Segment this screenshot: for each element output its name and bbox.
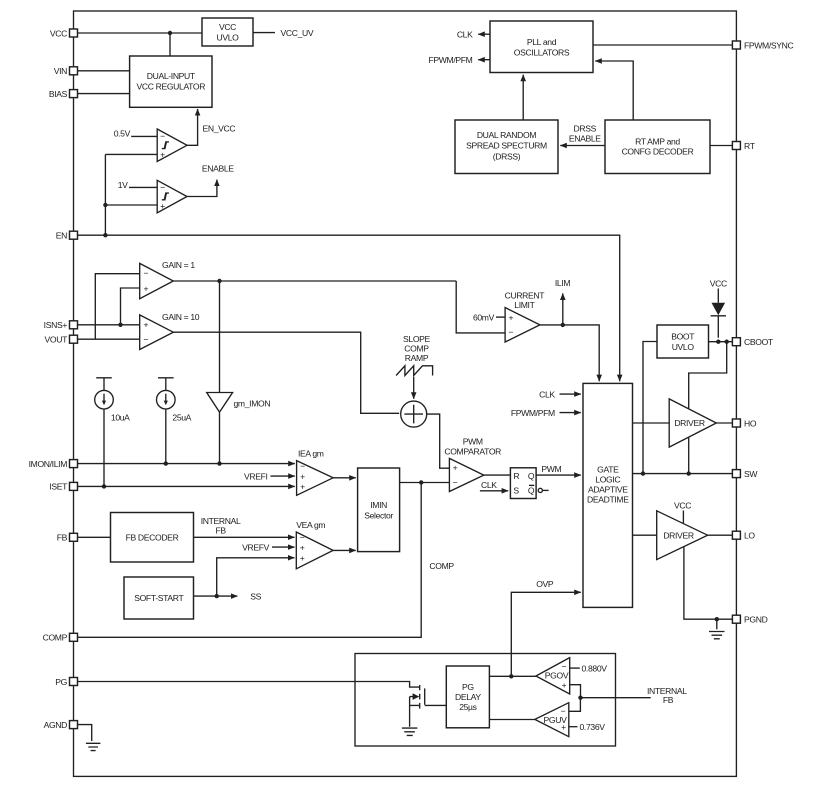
svg-text:DUAL-INPUT: DUAL-INPUT — [147, 71, 196, 81]
node BOOT sense on SW — [641, 471, 645, 475]
svg-text:Q: Q — [528, 486, 535, 496]
wire VREFV to VEA middle input — [272, 546, 295, 548]
svg-text:PWM: PWM — [463, 436, 483, 446]
wire 60mV to current limit plus — [496, 316, 505, 318]
pin EN — [56, 231, 78, 241]
wire 1V to comparator minus — [129, 186, 157, 188]
wire VCC_UV output — [253, 32, 275, 34]
svg-text:PG: PG — [55, 677, 67, 687]
wire IEA output to IMIN selector — [333, 477, 356, 479]
svg-text:RT: RT — [744, 141, 756, 151]
comparator EN_VCC (0.5V) — [157, 129, 187, 162]
svg-text:VCC: VCC — [219, 22, 236, 32]
block IMIN Selector — [358, 468, 400, 552]
svg-text:−: − — [300, 461, 305, 471]
svg-text:0.5V: 0.5V — [114, 129, 131, 139]
wire BOOT UVLO to CBOOT pin — [709, 341, 733, 343]
block PG DELAY 25us — [446, 666, 489, 728]
svg-text:+: + — [300, 482, 305, 492]
node soft-start branch — [215, 594, 219, 598]
svg-text:SS: SS — [250, 591, 261, 601]
pin PGND — [732, 615, 767, 625]
svg-text:LO: LO — [744, 531, 755, 541]
svg-text:+: + — [300, 471, 305, 481]
wire CLK output of PLL — [478, 33, 490, 35]
svg-text:+: + — [453, 463, 458, 473]
wire ISNS+ pin line — [78, 324, 140, 326]
wire HO driver supply from CBOOT — [689, 342, 727, 410]
wire PG DELAY output to FET gate — [425, 704, 447, 706]
ground PGND — [709, 619, 725, 639]
wire VCC into LO driver — [682, 511, 684, 524]
wire ILIM up arrow — [562, 293, 564, 325]
svg-text:S: S — [513, 486, 519, 496]
wire OVP into gate logic — [511, 592, 581, 676]
pin COMP — [43, 633, 78, 643]
wire DRSS ENABLE — [560, 145, 605, 147]
svg-text:AGND: AGND — [44, 720, 68, 730]
svg-text:DEADTIME: DEADTIME — [587, 495, 629, 505]
ground AGND — [86, 743, 101, 750]
wire BIAS pin to regulator — [78, 93, 130, 95]
svg-text:+: + — [508, 312, 513, 322]
node PGND ground tap — [715, 617, 719, 621]
wire ENABLE output with up arrow — [187, 180, 217, 197]
svg-text:−: − — [300, 533, 305, 543]
svg-text:ADAPTIVE: ADAPTIVE — [588, 484, 628, 494]
node ISNS+ branch — [118, 323, 122, 327]
svg-text:DRIVER: DRIVER — [663, 530, 694, 540]
node gm_IMON tap — [217, 279, 221, 283]
svg-text:VCC: VCC — [674, 501, 691, 511]
symbol latch Qbar stub — [538, 488, 548, 492]
latch RS — [510, 468, 536, 499]
wire GAIN=1 signal down to current limit minus — [456, 281, 505, 333]
wire BOOT UVLO left down to SW — [643, 342, 657, 474]
wire GAIN=1 output across to current limit — [173, 280, 456, 282]
node 10uA on ISET line — [102, 484, 106, 488]
wire PGOV threshold — [570, 667, 580, 669]
svg-text:ILIM: ILIM — [555, 278, 571, 288]
wire RT AMP to PLL right input — [595, 61, 633, 120]
svg-text:25µs: 25µs — [459, 702, 476, 712]
wire current limit output — [540, 325, 599, 381]
amplifier VEA gm error amp — [296, 532, 333, 569]
wire EN_VCC comparator output up into regulator — [187, 109, 198, 145]
svg-text:−: − — [160, 131, 165, 141]
current source 10uA — [95, 378, 130, 487]
wire VREFI to IEA middle input — [271, 475, 295, 477]
pin ISET — [49, 482, 77, 492]
svg-text:10uA: 10uA — [111, 413, 130, 423]
pin RT — [732, 141, 755, 151]
svg-text:FB: FB — [663, 695, 674, 705]
block FB DECODER — [111, 513, 194, 563]
wire summing output to PWM comparator plus input — [427, 414, 450, 468]
svg-text:OVP: OVP — [536, 579, 554, 589]
block DUAL-INPUT VCC REGULATOR — [130, 56, 212, 107]
wire COMP net down and to COMP pin — [78, 483, 422, 638]
block VCC UVLO U-uvlo — [202, 18, 253, 46]
svg-text:−: − — [143, 268, 148, 278]
svg-text:IMON/ILIM: IMON/ILIM — [29, 459, 68, 469]
amplifier IEA gm error amp — [297, 461, 334, 496]
block RT AMP and CONFG DECODER — [605, 120, 710, 174]
svg-text:RAMP: RAMP — [405, 353, 429, 363]
net label DRSS ENABLE — [569, 123, 601, 143]
wire gate logic to LO driver — [633, 534, 657, 536]
svg-text:INTERNAL: INTERNAL — [201, 516, 241, 526]
node gm_IMON on IMON line — [217, 461, 221, 465]
svg-text:VCC: VCC — [710, 279, 727, 289]
net label INTERNAL FB — [647, 686, 687, 705]
transistor PG pulldown FET — [410, 685, 425, 727]
wire VOUT to GAIN=1 inverting input — [95, 274, 139, 340]
pin VIN — [54, 66, 78, 76]
svg-text:FPWM/SYNC: FPWM/SYNC — [744, 40, 794, 50]
wire gate logic to HO driver — [633, 422, 670, 424]
svg-text:DRSS: DRSS — [574, 123, 597, 133]
svg-text:CLK: CLK — [481, 480, 497, 490]
wire VCC junction down to regulator top — [169, 33, 171, 56]
node OVP tap — [509, 674, 513, 678]
wire FPWM/PFM output of PLL — [478, 59, 490, 61]
node comparator branch — [103, 203, 107, 207]
svg-text:ENABLE: ENABLE — [569, 134, 601, 144]
svg-text:VCC_UV: VCC_UV — [281, 28, 314, 38]
svg-text:DELAY: DELAY — [455, 692, 481, 702]
svg-text:PWM: PWM — [541, 464, 561, 474]
node COMP tap — [419, 480, 423, 484]
node internal FB junction — [578, 696, 582, 700]
svg-text:VREFI: VREFI — [244, 471, 268, 481]
wire LO driver return to PGND — [684, 547, 733, 619]
wire EN line across to gate logic — [78, 235, 620, 381]
wire FB pin to FB decoder — [78, 536, 111, 538]
comparator PWM — [449, 458, 483, 491]
svg-text:FB: FB — [215, 525, 226, 535]
svg-text:SOFT-START: SOFT-START — [134, 593, 184, 603]
wire internal FB to VEA inverting input — [194, 536, 295, 538]
svg-text:−: − — [160, 182, 165, 192]
wire RT AMP to RT pin — [710, 145, 732, 147]
svg-text:CBOOT: CBOOT — [744, 337, 774, 347]
pin IMON/ILIM — [29, 459, 78, 469]
label SLOPE COMP RAMP — [403, 334, 431, 363]
svg-text:UVLO: UVLO — [672, 342, 695, 352]
wire ramp into summing node — [413, 377, 415, 399]
pin VCC — [50, 28, 78, 38]
svg-text:+: + — [160, 150, 165, 160]
svg-text:Q: Q — [528, 471, 535, 481]
wire SW line — [633, 473, 733, 475]
svg-text:LIMIT: LIMIT — [514, 300, 535, 310]
svg-text:0.880V: 0.880V — [582, 663, 608, 673]
block BOOT UVLO — [657, 325, 709, 358]
pin HO — [732, 418, 756, 428]
svg-text:(DRSS): (DRSS) — [493, 152, 521, 162]
svg-text:CONFG DECODER: CONFG DECODER — [622, 147, 694, 157]
pin ISNS+ — [44, 320, 78, 330]
svg-text:ENABLE: ENABLE — [202, 163, 234, 173]
wire ISNS+ to GAIN=1 non-inverting input — [121, 288, 140, 325]
pin FB — [57, 533, 78, 543]
wire PGOV plus to internal FB — [570, 685, 581, 698]
svg-text:PGND: PGND — [744, 615, 768, 625]
svg-text:+: + — [300, 553, 305, 563]
node HO driver supply tap — [725, 340, 729, 344]
svg-text:ISET: ISET — [49, 482, 68, 492]
svg-text:gm_IMON: gm_IMON — [234, 399, 271, 409]
wire CLK into latch S with underline — [480, 490, 508, 492]
pin FPWM/SYNC — [732, 40, 793, 50]
svg-text:FB: FB — [57, 533, 68, 543]
svg-text:CURRENT: CURRENT — [505, 291, 546, 301]
svg-text:COMPARATOR: COMPARATOR — [444, 446, 501, 456]
svg-text:SLOPE: SLOPE — [403, 334, 431, 344]
wire FPWM/PFM into gate logic — [560, 412, 581, 414]
svg-text:GAIN = 10: GAIN = 10 — [162, 312, 200, 322]
wire DRSS to PLL bottom input — [522, 75, 524, 120]
comparator PGOV — [536, 658, 570, 694]
ground FET source — [402, 728, 418, 735]
wire IMON/ILIM line to IEA inverting input — [78, 463, 295, 465]
pin BIAS — [49, 89, 78, 99]
svg-text:−: − — [143, 335, 148, 345]
svg-text:+: + — [143, 320, 148, 330]
wire VOUT pin line — [78, 338, 140, 340]
node diode to CBOOT line — [716, 340, 720, 344]
wire PGUV threshold — [569, 726, 578, 728]
comparator PGUV — [535, 703, 569, 737]
svg-text:GAIN = 1: GAIN = 1 — [162, 260, 195, 270]
wire GAIN=10 output to summing node — [173, 332, 399, 413]
svg-text:60mV: 60mV — [473, 312, 495, 322]
comparator CURRENT LIMIT — [505, 308, 540, 343]
wire ISET line to IEA plus input — [78, 485, 295, 487]
pin VOUT — [45, 335, 78, 345]
pin LO — [732, 531, 755, 541]
svg-text:OSCILLATORS: OSCILLATORS — [514, 47, 570, 57]
wire HO driver to HO pin — [716, 422, 732, 424]
wire PWM comparator output to latch R — [484, 474, 511, 476]
wire VCC pin to VCC UVLO — [78, 32, 203, 34]
diode bootstrap — [711, 289, 726, 338]
svg-text:COMP: COMP — [43, 633, 68, 643]
net label INTERNAL FB — [201, 516, 241, 536]
current source 25uA — [157, 378, 192, 464]
svg-text:VIN: VIN — [54, 66, 67, 76]
wire CLK into gate logic — [560, 393, 581, 395]
wire EN sense vertical to both comparators — [105, 154, 157, 235]
node ILIM tap — [561, 323, 565, 327]
amplifier GAIN = 10 — [140, 315, 174, 350]
svg-text:−: − — [561, 706, 566, 716]
svg-text:−: − — [453, 477, 458, 487]
node VCC junction — [168, 31, 172, 35]
comparator ENABLE (1V) — [157, 180, 187, 213]
block PLL and OSCILLATORS — [490, 21, 593, 73]
node 25uA on IMON line — [164, 461, 168, 465]
node EN line junction — [103, 233, 107, 237]
svg-text:FPWM/PFM: FPWM/PFM — [429, 55, 473, 65]
svg-text:EN_VCC: EN_VCC — [203, 123, 236, 133]
svg-text:+: + — [143, 283, 148, 293]
svg-text:SW: SW — [744, 469, 758, 479]
svg-text:CLK: CLK — [539, 389, 555, 399]
svg-text:1V: 1V — [118, 180, 128, 190]
svg-text:Selector: Selector — [364, 510, 393, 520]
wire SS output — [194, 595, 238, 597]
block GATE LOGIC ADAPTIVE DEADTIME — [583, 383, 633, 607]
node HO return on SW — [687, 471, 691, 475]
wire HO driver return to SW — [688, 437, 690, 474]
svg-text:R: R — [513, 471, 519, 481]
svg-text:BOOT: BOOT — [671, 332, 695, 342]
wire PGOV output to PG DELAY — [489, 675, 536, 677]
wire soft-start to VEA lower input — [217, 558, 295, 596]
wire LO driver to LO pin — [708, 534, 733, 536]
svg-text:25uA: 25uA — [172, 413, 191, 423]
svg-text:VCC REGULATOR: VCC REGULATOR — [136, 81, 205, 91]
svg-text:SPREAD SPECTURM: SPREAD SPECTURM — [466, 141, 547, 151]
driver HO — [669, 399, 716, 447]
svg-text:DUAL RANDOM: DUAL RANDOM — [477, 130, 537, 140]
svg-text:ISNS+: ISNS+ — [44, 320, 68, 330]
wire IMIN output to PWM comparator — [400, 482, 450, 484]
wire PG pin to pulldown FET drain — [78, 682, 420, 688]
svg-text:PLL and: PLL and — [527, 37, 557, 47]
block DUAL RANDOM SPREAD SPECTURM (DRSS) — [455, 120, 558, 174]
block power-good container — [355, 654, 616, 747]
svg-text:0.736V: 0.736V — [580, 722, 606, 732]
block SOFT-START — [124, 577, 194, 619]
svg-text:IMIN: IMIN — [370, 500, 387, 510]
svg-text:HO: HO — [744, 418, 757, 428]
svg-text:PG: PG — [462, 682, 474, 692]
wire VEA output to IMIN selector — [333, 549, 356, 551]
label PWM COMPARATOR — [444, 436, 501, 456]
svg-text:FB DECODER: FB DECODER — [126, 533, 179, 543]
svg-text:VCC: VCC — [50, 28, 67, 38]
svg-text:PGOV: PGOV — [545, 670, 569, 680]
svg-text:RT AMP and: RT AMP and — [635, 136, 680, 146]
svg-text:COMP: COMP — [429, 561, 454, 571]
driver LO — [657, 511, 708, 560]
svg-text:EN: EN — [56, 231, 67, 241]
svg-text:LOGIC: LOGIC — [595, 475, 620, 485]
symbol slope comp ramp sawtooth — [396, 366, 433, 376]
svg-text:+: + — [300, 542, 305, 552]
amplifier gm_IMON — [207, 281, 271, 464]
svg-text:+: + — [561, 722, 566, 732]
svg-text:−: − — [562, 662, 567, 672]
wire VIN pin to regulator — [78, 70, 130, 72]
svg-text:UVLO: UVLO — [216, 32, 239, 42]
svg-text:CLK: CLK — [457, 29, 473, 39]
svg-text:VEA gm: VEA gm — [296, 520, 325, 530]
summing junction — [401, 401, 427, 427]
wire 0.5V to comparator minus — [131, 135, 157, 137]
svg-text:+: + — [562, 680, 567, 690]
svg-text:VOUT: VOUT — [45, 335, 69, 345]
wire PGUV minus to internal FB — [569, 698, 581, 712]
IC outer boundary — [74, 11, 737, 776]
pin PG — [55, 677, 77, 687]
wire latch Q to gate logic PWM input — [536, 474, 581, 476]
svg-text:BIAS: BIAS — [49, 89, 68, 99]
label CURRENT LIMIT — [505, 291, 546, 311]
wire AGND pin to ground — [78, 725, 92, 741]
wire PLL to FPWM/SYNC pin — [593, 44, 732, 46]
pin SW — [732, 469, 758, 479]
svg-text:VREFV: VREFV — [242, 542, 270, 552]
wire INTERNAL FB line — [581, 697, 651, 699]
svg-text:IEA gm: IEA gm — [298, 449, 324, 459]
svg-text:+: + — [160, 201, 165, 211]
svg-text:−: − — [508, 327, 513, 337]
svg-text:DRIVER: DRIVER — [674, 418, 705, 428]
pin CBOOT — [732, 337, 774, 347]
svg-text:GATE: GATE — [597, 465, 619, 475]
pin AGND — [44, 720, 78, 730]
amplifier GAIN = 1 — [140, 263, 174, 298]
svg-text:FPWM/PFM: FPWM/PFM — [511, 408, 555, 418]
svg-text:COMP: COMP — [404, 344, 429, 354]
wire PGUV output to PG DELAY — [489, 719, 534, 721]
